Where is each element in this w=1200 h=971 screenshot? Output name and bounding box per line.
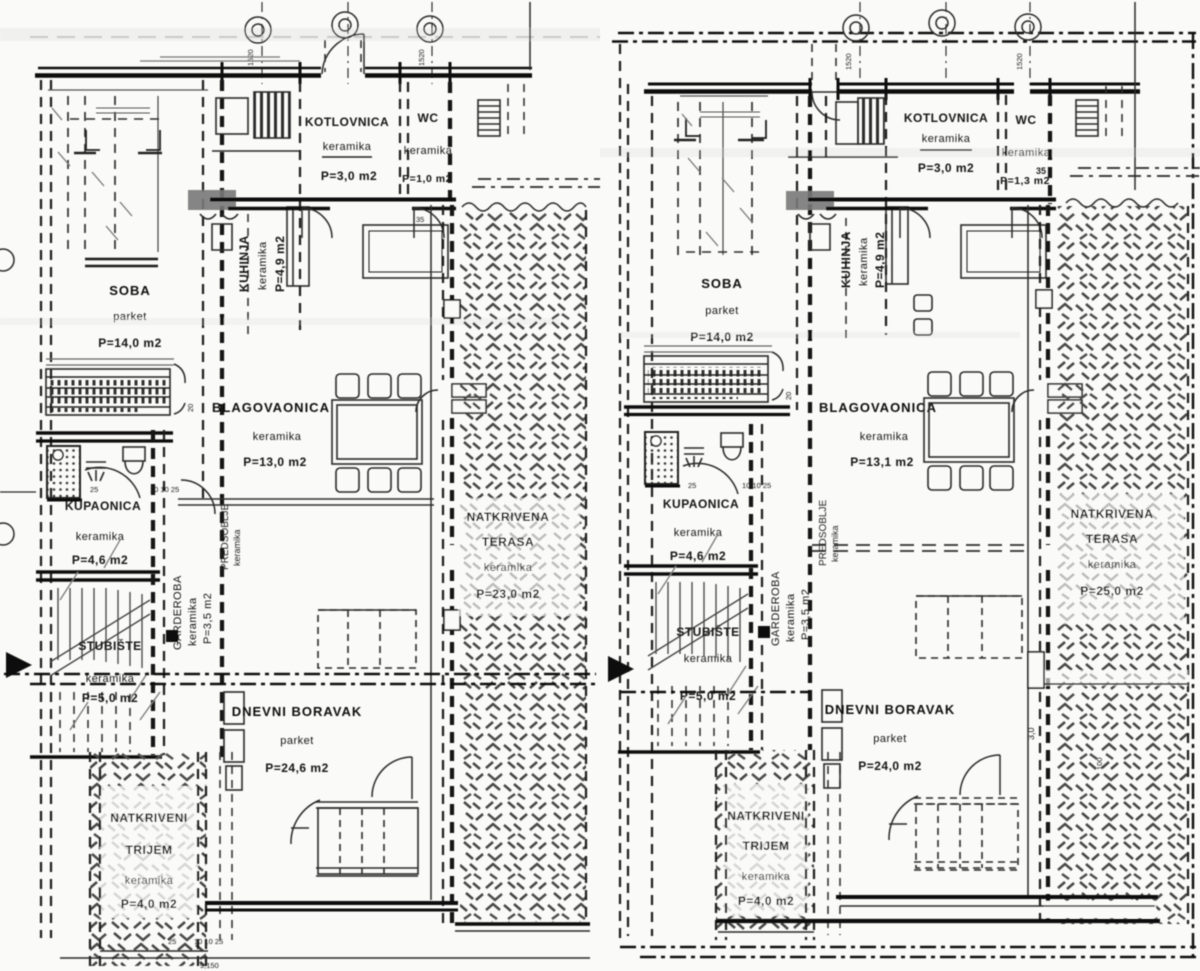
porch bottom line	[718, 931, 814, 933]
terrace thin wall	[1027, 205, 1029, 898]
svg-text:SOBA: SOBA	[701, 276, 743, 291]
porch bottom line	[100, 950, 208, 952]
svg-text:KUHINJA: KUHINJA	[237, 235, 251, 292]
svg-text:parket: parket	[280, 735, 314, 747]
porch hatch	[716, 750, 814, 932]
svg-text:NATKRIVENI: NATKRIVENI	[727, 809, 804, 823]
entry door arc	[960, 755, 1000, 795]
svg-text:keramika: keramika	[922, 133, 971, 145]
tv rects	[224, 692, 244, 790]
soba door arc	[772, 352, 783, 400]
window sill line	[140, 57, 300, 61]
svg-text:P=1,0 m2: P=1,0 m2	[402, 173, 452, 185]
bath door arc	[683, 463, 738, 494]
svg-text:keramika: keramika	[187, 597, 199, 646]
svg-text:P=14,0 m2: P=14,0 m2	[690, 330, 754, 344]
svg-text:BLAGOVAONICA: BLAGOVAONICA	[819, 400, 937, 415]
property line right	[1192, 33, 1194, 958]
toilet	[123, 447, 145, 474]
svg-text:keramika: keramika	[404, 145, 453, 157]
washbasin	[684, 448, 704, 467]
terrace door steps	[416, 384, 486, 413]
svg-text:10 10 25: 10 10 25	[742, 481, 771, 490]
window axis dashes	[262, 2, 432, 84]
svg-text:25: 25	[688, 481, 696, 490]
terrace hatch	[460, 210, 586, 922]
svg-text:25: 25	[168, 937, 176, 946]
kitchen counter edge	[247, 214, 249, 340]
svg-text:P=24,0 m2: P=24,0 m2	[858, 759, 922, 773]
svg-text:keramika: keramika	[125, 875, 174, 887]
svg-text:keramika: keramika	[484, 562, 533, 574]
svg-text:KUHINJA: KUHINJA	[839, 231, 853, 288]
svg-text:TRIJEM: TRIJEM	[742, 839, 789, 853]
entry ladder block	[478, 100, 500, 136]
terrace hatch	[1056, 206, 1188, 924]
wall ticks	[810, 78, 1050, 100]
shower	[645, 432, 680, 486]
porch hatch	[90, 752, 206, 966]
desk dashed	[318, 610, 416, 668]
svg-text:TRIJEM: TRIJEM	[125, 843, 172, 857]
wall under kotlovnica/wc	[808, 198, 1056, 202]
left outer wall dashed	[627, 84, 629, 936]
window symbol 1	[245, 17, 271, 43]
wall under kupaonica	[36, 570, 160, 574]
tall cupboard	[287, 207, 309, 286]
tall cupboard	[886, 207, 908, 284]
window lines above radiator	[46, 359, 174, 365]
entry door arc top	[812, 92, 840, 120]
svg-text:3,0: 3,0	[1026, 727, 1036, 740]
svg-text:NATKRIVENA: NATKRIVENA	[1071, 507, 1154, 521]
dining chairs top	[336, 374, 421, 398]
svg-text:P=13,1 m2: P=13,1 m2	[850, 455, 914, 469]
left outer wall dashed	[40, 80, 42, 938]
svg-text:P=4,6 m2: P=4,6 m2	[72, 553, 128, 567]
svg-text:SOBA: SOBA	[109, 283, 151, 298]
wall above porch	[30, 755, 162, 759]
dining chairs top	[928, 372, 1013, 396]
wardrobe	[680, 95, 768, 97]
svg-text:DNEVNI BORAVAK: DNEVNI BORAVAK	[232, 704, 363, 719]
soba door arc	[174, 364, 185, 414]
terrace hatch right edge	[585, 210, 587, 924]
bath door arc	[85, 467, 140, 498]
svg-text:P=14,0 m2: P=14,0 m2	[98, 336, 162, 350]
stairs treads	[58, 588, 142, 668]
svg-text:parket: parket	[873, 733, 907, 745]
svg-text:STUBIŠTE: STUBIŠTE	[676, 624, 739, 639]
wall under soba	[624, 405, 790, 408]
bottom wall	[205, 901, 458, 905]
kotlovnica left wall	[885, 95, 887, 335]
svg-text:1520: 1520	[1015, 53, 1024, 70]
kitchen sink block	[212, 92, 300, 151]
terrace door steps	[1012, 384, 1082, 413]
window axis dashes	[860, 2, 1030, 88]
hall rect	[363, 225, 448, 278]
stairs break lines	[50, 600, 150, 676]
dining chairs bottom	[336, 468, 421, 492]
property line top	[618, 32, 1196, 34]
kitchen counter edge	[845, 218, 847, 340]
hall door arc	[889, 796, 918, 840]
svg-text:keramika: keramika	[858, 237, 870, 286]
soba right wall dashed	[796, 96, 798, 410]
svg-text:25: 25	[90, 485, 98, 494]
soba right wall dashed	[202, 80, 204, 500]
svg-text:parket: parket	[113, 311, 147, 323]
porch dashed edges	[716, 750, 814, 940]
svg-text:100: 100	[1095, 757, 1104, 770]
window symbol 2	[929, 10, 955, 36]
svg-text:1520: 1520	[417, 49, 426, 66]
svg-text:PREDSOBLJE: PREDSOBLJE	[818, 500, 829, 566]
svg-text:P=13,0 m2: P=13,0 m2	[243, 455, 307, 469]
sink smudge	[188, 190, 236, 210]
svg-text:keramika: keramika	[76, 531, 125, 543]
hatch break band	[1042, 670, 1188, 686]
scan band	[0, 28, 600, 41]
svg-text:P=3,5 m2: P=3,5 m2	[202, 593, 214, 644]
black blob	[758, 626, 770, 638]
hatch notch lower	[1028, 652, 1044, 688]
dividing line dining/living	[178, 499, 434, 505]
shower	[47, 446, 82, 500]
SECTION	[4, 652, 810, 692]
hatch notch upper	[444, 300, 460, 318]
wall under kotlovnica/wc	[210, 198, 456, 202]
black blob	[166, 630, 178, 642]
hall dashes	[1106, 86, 1122, 140]
svg-text:PREDSOBLJE: PREDSOBLJE	[220, 504, 231, 570]
svg-text:keramika: keramika	[785, 593, 797, 642]
top dim line	[1134, 2, 1136, 190]
svg-text:KUPAONICA: KUPAONICA	[65, 499, 141, 513]
svg-text:1520: 1520	[844, 53, 853, 70]
svg-text:P=1,3 m2: P=1,3 m2	[1000, 175, 1050, 187]
property line bottom	[620, 946, 1196, 948]
faint boundary dash top-left	[30, 36, 600, 38]
RIGHT-UNIT	[612, 2, 1200, 958]
terrace label box	[458, 498, 580, 616]
svg-text:20: 20	[784, 392, 793, 400]
terrace hatch right edge	[1187, 206, 1189, 924]
svg-text:P=3,5 m2: P=3,5 m2	[800, 589, 812, 640]
wall white band	[1044, 901, 1156, 918]
porch right double dash	[828, 752, 840, 935]
svg-text:P=3,0 m2: P=3,0 m2	[321, 169, 377, 183]
section line left	[4, 673, 596, 675]
wardrobe	[48, 89, 208, 91]
svg-text:KOTLOVNICA: KOTLOVNICA	[305, 115, 389, 129]
svg-text:20: 20	[186, 404, 195, 412]
window symbol 3	[1015, 14, 1041, 40]
kotlovnica left wall	[299, 82, 301, 335]
window symbol 1	[843, 15, 869, 41]
hall rect	[961, 225, 1046, 278]
svg-text:P=4,6 m2: P=4,6 m2	[670, 549, 726, 563]
stairs treads	[656, 582, 740, 662]
svg-text:keramika: keramika	[684, 653, 733, 665]
section arrow right	[608, 656, 634, 682]
tv rects	[822, 690, 842, 788]
svg-text:35: 35	[416, 215, 424, 224]
svg-text:DNEVNI BORAVAK: DNEVNI BORAVAK	[825, 702, 956, 717]
hall dashes	[508, 84, 524, 140]
svg-text:GARDEROBA: GARDEROBA	[770, 571, 782, 646]
terrace label box	[1054, 494, 1184, 624]
wall ticks	[222, 62, 450, 84]
terrace bold dashed wall	[450, 205, 454, 924]
hall wall dashed vertical	[749, 424, 753, 750]
entry ladder block	[1076, 100, 1098, 136]
terrace thin wall	[430, 205, 432, 900]
door arc kotlovnica	[302, 208, 332, 238]
svg-text:keramika: keramika	[253, 431, 302, 443]
hatch notch upper	[1036, 290, 1052, 308]
terrace bold dashed wall	[1046, 205, 1050, 924]
desk dashed	[916, 596, 1022, 658]
bottom wall 1	[836, 895, 1158, 899]
svg-text:KOTLOVNICA: KOTLOVNICA	[904, 111, 988, 125]
hatch notch lower	[444, 610, 460, 630]
bottom wall 2	[716, 919, 1160, 923]
LEFT-UNIT	[0, 2, 600, 970]
svg-text:KUPAONICA: KUPAONICA	[663, 497, 739, 511]
kitchen sink block	[788, 98, 898, 157]
door arc to hall	[181, 480, 215, 514]
dining chairs bottom	[928, 466, 1013, 490]
svg-text:NATKRIVENI: NATKRIVENI	[110, 811, 187, 825]
washbasin	[86, 462, 106, 481]
dining table	[332, 400, 422, 464]
svg-text:P=23,0 m2: P=23,0 m2	[476, 587, 540, 601]
sofa	[914, 798, 1020, 870]
svg-text:keramika: keramika	[1088, 559, 1137, 571]
stairs lower flight	[60, 692, 130, 752]
porch label box	[100, 786, 198, 918]
top dim line	[529, 2, 531, 70]
svg-text:WC: WC	[418, 111, 439, 125]
svg-text:P=4,9 m2: P=4,9 m2	[273, 236, 287, 292]
terrace hatch top edge	[1066, 199, 1178, 207]
wc walls	[400, 82, 408, 198]
radiator	[644, 356, 768, 402]
door arc kotlovnica	[900, 208, 930, 238]
svg-text:keramika: keramika	[257, 241, 269, 290]
porch right double dash	[220, 752, 232, 940]
porch label box	[724, 784, 808, 916]
svg-text:STUBIŠTE: STUBIŠTE	[78, 638, 141, 653]
circled 2 top	[0, 249, 36, 492]
svg-text:1520: 1520	[246, 49, 255, 66]
hall wall dashed vertical	[151, 430, 155, 755]
door arc wc	[1012, 208, 1042, 238]
svg-text:keramika: keramika	[232, 529, 242, 566]
wall under soba	[36, 431, 173, 434]
porch dashed edges	[90, 752, 206, 966]
door arc wc	[414, 208, 444, 238]
circled 2 low	[0, 523, 14, 545]
svg-text:keramika: keramika	[742, 871, 791, 883]
svg-text:P=4,0 m2: P=4,0 m2	[738, 894, 794, 908]
window symbol 2	[332, 12, 358, 38]
stair squiggles	[658, 534, 758, 724]
svg-text:35: 35	[1036, 166, 1046, 176]
dining table	[924, 398, 1014, 462]
entry door arc	[372, 757, 412, 799]
svg-text:keramika: keramika	[674, 527, 723, 539]
stair squiggles	[60, 540, 160, 730]
svg-text:TERASA: TERASA	[1086, 532, 1138, 546]
svg-text:BLAGOVAONICA: BLAGOVAONICA	[212, 400, 330, 415]
svg-text:NATKRIVENA: NATKRIVENA	[467, 510, 550, 524]
svg-text:keramika: keramika	[323, 141, 372, 153]
svg-text:keramika: keramika	[1002, 147, 1051, 159]
svg-text:TERASA: TERASA	[482, 535, 534, 549]
sink smudge	[786, 191, 834, 210]
toilet	[721, 433, 743, 460]
svg-text:keramika: keramika	[830, 525, 840, 562]
dividing line dining/living	[812, 545, 1028, 551]
top wall	[38, 67, 532, 70]
svg-text:10 10 25: 10 10 25	[150, 485, 179, 494]
svg-text:9,150: 9,150	[200, 961, 219, 970]
top wall	[648, 83, 1140, 86]
top door arc	[322, 34, 364, 74]
section arrow left	[6, 652, 32, 678]
window symbol 3	[417, 16, 443, 42]
wall under kupaonica	[624, 564, 758, 568]
svg-text:P=5,0 m2: P=5,0 m2	[82, 691, 138, 705]
svg-text:P=3,0 m2: P=3,0 m2	[918, 161, 974, 175]
stairs break lines	[648, 594, 748, 670]
wall above porch	[618, 750, 760, 754]
hall door arc	[291, 800, 320, 844]
property line left	[619, 44, 621, 940]
wc walls	[998, 95, 1006, 196]
sofa	[316, 802, 418, 876]
section line right	[620, 691, 810, 693]
bottom wall under hatch	[455, 922, 590, 926]
svg-text:parket: parket	[705, 305, 739, 317]
svg-text:P=4,0 m2: P=4,0 m2	[121, 897, 177, 911]
svg-text:P=24,6 m2: P=24,6 m2	[265, 761, 329, 775]
svg-text:10 10 25: 10 10 25	[194, 937, 223, 946]
svg-text:keramika: keramika	[860, 431, 909, 443]
stairs lower flight	[658, 686, 728, 746]
svg-text:P=25,0 m2: P=25,0 m2	[1080, 584, 1144, 598]
bar stools	[914, 295, 932, 335]
radiator	[46, 369, 170, 415]
svg-text:WC: WC	[1016, 113, 1037, 127]
window lines above radiator	[644, 346, 772, 352]
